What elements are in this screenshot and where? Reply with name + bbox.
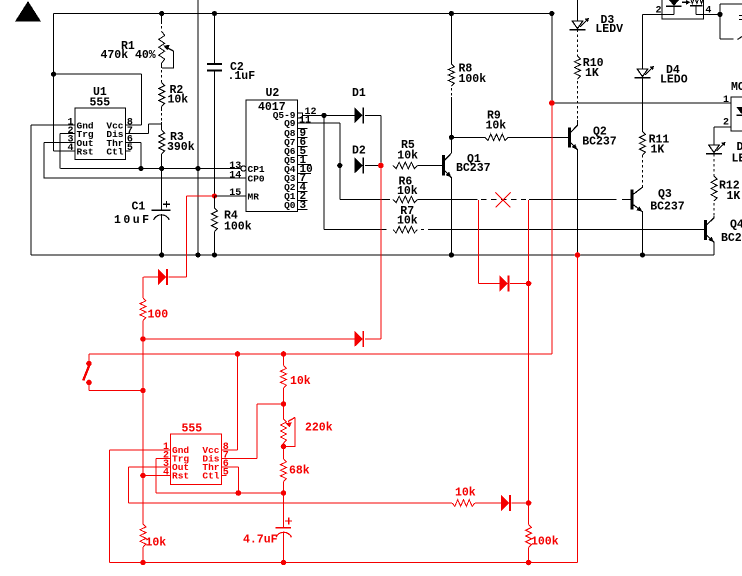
svg-text:10k: 10k xyxy=(168,94,189,107)
pin U3.4 wire xyxy=(696,6,720,15)
label R4 xyxy=(224,210,238,223)
svg-text:1K: 1K xyxy=(727,190,741,203)
label R10 value xyxy=(585,67,599,80)
cut mark X xyxy=(496,193,511,208)
svg-text:470k 40%: 470k 40% xyxy=(101,49,156,62)
svg-text:4: 4 xyxy=(67,143,73,154)
wire red bottom rail xyxy=(110,562,578,564)
svg-text:1K: 1K xyxy=(585,67,599,80)
diode D9 red xyxy=(499,275,508,291)
resistor R14 10k xyxy=(140,524,146,563)
resistor R18 10k xyxy=(452,500,475,507)
capacitor C3 4.7uF xyxy=(276,493,293,563)
wire R2-R3 lead xyxy=(161,107,163,131)
label U2 pin names left xyxy=(248,164,265,203)
wire red Q2-emitter riser xyxy=(577,255,579,563)
op-amp U1 body xyxy=(75,108,126,160)
node Vcc-354 xyxy=(235,351,241,357)
node Q3 emitter bottom xyxy=(640,252,645,257)
label U2 pin12 xyxy=(305,107,317,118)
node supply right top xyxy=(549,11,554,16)
resistor R7 10k row xyxy=(393,226,418,233)
wire R18 to D8 xyxy=(475,502,501,504)
label R4 value xyxy=(224,221,252,234)
label U2 output names xyxy=(273,110,296,211)
svg-text:Ctl: Ctl xyxy=(106,146,123,157)
label D5 type xyxy=(732,153,742,166)
node gnd U5 xyxy=(140,560,146,566)
svg-text:100k: 100k xyxy=(224,221,252,234)
wire Q2 emitter down xyxy=(576,150,578,255)
svg-text:10k: 10k xyxy=(290,375,311,388)
wire D2 out xyxy=(365,165,378,167)
wire top supply rail xyxy=(54,13,552,15)
resistor R17 68k xyxy=(281,446,287,493)
wire R5 to Q1 base xyxy=(418,165,443,167)
pin U1.8 Vcc stub xyxy=(125,124,141,126)
wire red supply drop xyxy=(89,103,552,354)
diode D7 red xyxy=(354,331,363,347)
node CP1 branch xyxy=(195,166,200,171)
svg-text:10k: 10k xyxy=(486,120,507,133)
label R11 xyxy=(649,134,670,147)
label R2 value xyxy=(168,94,189,107)
svg-text:Q0: Q0 xyxy=(284,200,296,211)
label U5 pin numbers left xyxy=(163,442,169,479)
svg-text:14: 14 xyxy=(229,170,241,181)
resistor R4 100k xyxy=(212,196,218,255)
label U5 pin numbers right xyxy=(223,442,229,479)
label R14 10k xyxy=(146,537,167,550)
label R9 xyxy=(487,110,501,123)
svg-text:10k: 10k xyxy=(455,487,476,500)
diode D8 red xyxy=(501,495,510,511)
label D3 xyxy=(601,14,615,27)
node C1 top xyxy=(159,166,164,171)
wire D1 to corner xyxy=(365,115,381,165)
wire red left drop xyxy=(142,339,144,524)
wire D7 corner up xyxy=(365,166,381,340)
wire D4 to R11 xyxy=(642,78,644,132)
svg-text:2: 2 xyxy=(655,6,661,17)
node D9-join xyxy=(526,281,532,287)
wire Q1 collector up xyxy=(450,137,452,153)
wire Q2 collector up xyxy=(576,120,578,125)
wire red row339 xyxy=(143,338,354,340)
label U1 pin names right xyxy=(106,121,123,158)
svg-text:MOC: MOC xyxy=(731,81,742,94)
resistor R11 1K xyxy=(640,132,646,187)
resistor R1 470k pot xyxy=(159,32,165,64)
pin U1.1 Gnd stub xyxy=(31,124,75,126)
node pin4 out xyxy=(717,12,722,17)
svg-text:BC237: BC237 xyxy=(721,232,742,245)
svg-text:100k: 100k xyxy=(531,536,559,549)
wire R9 to Q2 base xyxy=(508,136,568,138)
wire D3 top xyxy=(577,0,579,21)
svg-text:Q3: Q3 xyxy=(658,188,672,201)
wire U5 Dis up xyxy=(257,404,283,459)
label R7 xyxy=(400,205,414,218)
node D8-100k xyxy=(526,500,532,506)
svg-text:3: 3 xyxy=(300,200,307,212)
node Q1 emitter bottom xyxy=(449,252,454,257)
svg-text:1: 1 xyxy=(723,95,729,106)
resistor R5 10k row xyxy=(393,162,418,169)
label D1 xyxy=(352,87,366,100)
svg-text:LED: LED xyxy=(732,153,742,166)
wire cut to Q3 base xyxy=(529,199,631,201)
svg-text:CP0: CP0 xyxy=(248,174,265,185)
transistor Q1 BC237 xyxy=(444,153,452,177)
label R6 value xyxy=(397,185,418,198)
box right top component xyxy=(720,4,742,40)
wire MR red lead xyxy=(186,196,214,277)
label U4 MOC xyxy=(731,81,742,94)
label U2 xyxy=(266,87,280,100)
label D5 xyxy=(737,141,742,154)
label C3 4.7uF xyxy=(243,534,278,547)
wire CP1 pin13 xyxy=(198,168,241,170)
svg-text:D2: D2 xyxy=(352,145,366,158)
opto U3 arrow xyxy=(682,0,691,5)
label R1 value xyxy=(101,49,156,62)
resistor R15 10k xyxy=(281,354,287,404)
pin U4.2 wire xyxy=(714,127,731,145)
wire Q3 collector up xyxy=(642,186,644,189)
pin U1.7 Dis stub xyxy=(125,133,148,135)
label R5 xyxy=(401,139,415,152)
wire pin12 branch down xyxy=(323,115,325,229)
resistor R2 10k xyxy=(159,83,165,107)
wire D4 feed xyxy=(642,14,644,70)
opto U4 MOC body xyxy=(731,97,742,131)
wire R1 top lead xyxy=(161,14,163,32)
svg-text:5: 5 xyxy=(223,468,229,479)
svg-text:100: 100 xyxy=(148,309,169,322)
label Q4 type xyxy=(721,232,742,245)
transistor Q2 BC237 xyxy=(570,125,578,149)
pin U2 CP1 bubble xyxy=(241,166,246,171)
label C2 xyxy=(230,61,244,74)
label R1 xyxy=(121,40,135,53)
label R6 xyxy=(399,176,413,189)
transistor Q4 BC237 xyxy=(706,218,715,242)
node R1 top xyxy=(159,11,164,16)
wire Q4 emitter down xyxy=(713,242,715,255)
wire U5 Out corner xyxy=(128,467,452,503)
pin U5.8 Vcc stub xyxy=(221,449,237,451)
label D3 type xyxy=(595,23,623,36)
wire U2 Q9 pin11 xyxy=(297,123,339,166)
svg-text:.1uF: .1uF xyxy=(228,70,256,83)
pin U1.4 Rst stub xyxy=(54,150,75,152)
label R18 10k xyxy=(455,487,476,500)
label R3 value xyxy=(167,141,195,154)
label D4 xyxy=(666,64,680,77)
label U3 pin4 xyxy=(705,6,711,17)
diode D2 xyxy=(354,157,363,173)
svg-text:10k: 10k xyxy=(397,215,418,228)
switch S1 xyxy=(83,354,143,391)
svg-text:BC237: BC237 xyxy=(456,162,491,175)
svg-text:BC237: BC237 xyxy=(582,136,617,149)
node 68k bottom xyxy=(281,490,287,496)
svg-text:4: 4 xyxy=(705,6,711,17)
label R19 100k xyxy=(531,536,559,549)
diode D5 LED xyxy=(706,142,726,154)
transistor Q3 BC237 xyxy=(632,187,643,211)
svg-text:4: 4 xyxy=(163,468,169,479)
node bottom rail C2-branch xyxy=(195,252,200,257)
pot R16 wiper arrow xyxy=(284,418,296,447)
wire supply right drop black xyxy=(551,14,553,104)
pin U1.5 Ctl stub xyxy=(125,150,130,152)
wire Q1 emitter down xyxy=(450,178,452,255)
node C2 top xyxy=(212,11,217,16)
label C1 xyxy=(132,201,146,214)
node gnd Q2 red tap xyxy=(575,252,581,258)
wire Vcc branch horizontal xyxy=(54,73,142,75)
svg-text:4.7uF: 4.7uF xyxy=(243,534,278,547)
label R8 xyxy=(459,63,473,76)
wire R7 feed xyxy=(324,229,387,231)
wire R6 to cut xyxy=(418,199,478,201)
svg-text:1K: 1K xyxy=(651,143,665,156)
node Thr join xyxy=(138,166,143,171)
opto U3 photocell xyxy=(690,0,703,6)
label R5 value xyxy=(397,150,418,163)
wire U5 Gnd down xyxy=(109,450,111,563)
svg-text:Q4: Q4 xyxy=(730,219,742,232)
label U1 555 xyxy=(90,97,111,110)
resistor R6 10k row xyxy=(393,196,418,203)
node R8 top xyxy=(449,11,454,16)
wire Vcc branch vertical xyxy=(141,74,143,125)
wire Q9 to R6 xyxy=(340,166,390,200)
diode D6 red xyxy=(143,269,186,285)
node U1 Vcc branch xyxy=(51,72,56,77)
resistor R13 100 xyxy=(140,277,146,339)
resistor R8 100k xyxy=(448,14,454,138)
wire MR pin15 black part xyxy=(215,195,247,197)
wire R1-R2 lead xyxy=(161,63,163,83)
label Q3 type xyxy=(650,201,685,214)
label R16 220k xyxy=(305,422,333,435)
svg-text:BC237: BC237 xyxy=(650,201,685,214)
node Rst red xyxy=(140,473,146,479)
pin U5.1 Gnd stub xyxy=(110,449,171,451)
pin U1.3 Out stub xyxy=(44,141,75,143)
node gnd R19 xyxy=(526,560,532,566)
label U1 xyxy=(93,86,107,99)
svg-text:100k: 100k xyxy=(459,73,487,86)
wire cut bypass right xyxy=(528,200,530,503)
label C1 value xyxy=(114,214,149,227)
label U5 pin names right xyxy=(202,445,219,482)
svg-text:10k: 10k xyxy=(397,150,418,163)
svg-text:5: 5 xyxy=(127,143,133,154)
label D4 type xyxy=(660,74,688,87)
node MR junction red xyxy=(212,193,217,198)
pin U2 unconnected flags xyxy=(297,128,312,212)
pin U1.6 Thr stub xyxy=(125,141,141,143)
node R16 bottom xyxy=(281,444,287,450)
pin U5.7 Dis stub xyxy=(221,458,257,460)
node pin12 branch xyxy=(321,113,326,118)
label U4 pin1 xyxy=(723,95,729,106)
op-amp U2 4017 body xyxy=(246,100,297,212)
pin U5.4 Rst stub xyxy=(143,475,170,477)
label Q1 type xyxy=(456,162,491,175)
wire CP0 pin14 xyxy=(44,177,246,179)
svg-text:555: 555 xyxy=(182,423,203,436)
label R12 value xyxy=(727,190,741,203)
wire Trg rail to 68k xyxy=(238,492,283,494)
label R17 68k xyxy=(289,465,310,478)
svg-text:10k: 10k xyxy=(397,185,418,198)
wire Thr/Trg/CP1 rail xyxy=(60,168,241,170)
wire U1 Thr corner xyxy=(140,142,142,168)
label U2 pin numbers left xyxy=(229,161,241,199)
svg-text:U2: U2 xyxy=(266,87,280,100)
node red 339 xyxy=(140,336,146,342)
svg-text:10k: 10k xyxy=(146,537,167,550)
label U5 555 xyxy=(182,423,203,436)
node R15 top xyxy=(281,351,287,357)
label C2 value xyxy=(228,70,256,83)
wire full-height vertical xyxy=(197,0,199,255)
pin U5.6 Thr stub xyxy=(221,466,238,468)
svg-text:Rst: Rst xyxy=(172,471,189,482)
opto U3 body xyxy=(662,0,704,19)
wire U1 Dis corner xyxy=(148,124,161,134)
label R8 value xyxy=(459,73,487,86)
resistor R19 100k xyxy=(526,503,532,563)
svg-text:68k: 68k xyxy=(289,465,310,478)
svg-text:10uF: 10uF xyxy=(114,214,149,227)
diode D1 xyxy=(354,107,363,123)
svg-text:MR: MR xyxy=(248,192,260,203)
node R8-R9 junction xyxy=(449,135,454,140)
node Thr-Trg join xyxy=(236,490,242,496)
wire U1 Trg corner xyxy=(59,134,61,169)
node gnd C1 xyxy=(159,252,164,257)
wire U1 Out corner xyxy=(43,142,45,178)
capacitor C2 .1uF xyxy=(207,14,222,197)
label U1 pin numbers right xyxy=(127,117,133,154)
svg-text:15: 15 xyxy=(229,188,241,199)
wire U2 Q5-9 pin12 xyxy=(302,114,354,116)
node R15 bottom xyxy=(281,401,287,407)
label R10 xyxy=(583,57,604,70)
wire U5 Thr down xyxy=(237,467,239,493)
svg-text:390k: 390k xyxy=(167,141,195,154)
wire left rail vertical xyxy=(53,14,55,151)
wire R9 feed xyxy=(451,136,485,138)
label R3 xyxy=(170,131,184,144)
label U4 pin2 xyxy=(723,118,729,129)
label Q1 xyxy=(467,153,481,166)
svg-text:220k: 220k xyxy=(305,422,333,435)
node supply red tap xyxy=(549,100,555,106)
wire R3 bottom lead xyxy=(161,154,163,169)
wire cut dashed xyxy=(481,199,526,201)
diode D3 LEDV xyxy=(570,18,590,30)
capacitor C1 10uF xyxy=(151,169,170,256)
pin U5.5 Ctl stub xyxy=(221,475,226,477)
label Q3 xyxy=(658,188,672,201)
svg-text:C1: C1 xyxy=(132,201,146,214)
wire cut bypass left xyxy=(479,200,500,284)
node D2 anode xyxy=(337,163,342,168)
opto U4 LED xyxy=(737,107,742,115)
wire Q3 emitter down xyxy=(642,212,644,255)
svg-text:D1: D1 xyxy=(352,87,366,100)
label R7 value xyxy=(397,215,418,228)
label R12 xyxy=(719,180,740,193)
pin U5.3 Out stub xyxy=(128,466,170,468)
resistor R10 1K xyxy=(575,30,581,121)
pin U1.2 Trg stub xyxy=(60,133,75,135)
label U2 4017 xyxy=(258,101,286,114)
label R11 value xyxy=(651,143,665,156)
pin U2.12 square xyxy=(297,113,302,118)
label R13 100 xyxy=(148,309,169,322)
wire D8 out xyxy=(512,502,529,504)
wire U1 Gnd down-left xyxy=(30,125,32,255)
wire R7 to Q4 base xyxy=(421,229,706,231)
label Q2 type xyxy=(582,136,617,149)
resistor R3 390k xyxy=(159,130,165,154)
pin U3.2 wire xyxy=(643,6,675,14)
resistor R12 1K xyxy=(711,154,717,216)
svg-text:11: 11 xyxy=(299,115,311,126)
diode D4 LEDO xyxy=(635,66,655,78)
label U5 pin names left xyxy=(172,445,189,482)
resistor R16 220k pot xyxy=(281,404,287,446)
label Q4 xyxy=(730,219,742,232)
pot R1 wiper arrow xyxy=(162,45,173,68)
label U2 pin11 xyxy=(299,115,311,126)
svg-text:Rst: Rst xyxy=(77,146,94,157)
label Q2 xyxy=(593,125,607,138)
logo triangle xyxy=(15,1,41,22)
wire MOC drive rail xyxy=(552,102,731,104)
node D2-D7 red join xyxy=(378,163,384,169)
label R15 10k xyxy=(290,375,311,388)
node gnd C3 xyxy=(281,560,287,566)
svg-text:555: 555 xyxy=(90,97,111,110)
node switch out xyxy=(140,388,146,394)
wire bottom ground rail xyxy=(31,254,714,256)
wire U5 Trg corner xyxy=(156,459,238,494)
node gnd R4 xyxy=(212,252,217,257)
wire Q4 collector up xyxy=(713,216,715,218)
svg-text:LEDO: LEDO xyxy=(660,74,688,87)
pin U5.2 Trg stub xyxy=(156,458,170,460)
wire D9 out xyxy=(510,283,529,285)
label U3 pin2 xyxy=(655,6,661,17)
op-amp U5 555 body xyxy=(170,434,221,485)
label R2 xyxy=(170,84,184,97)
wire U5 Vcc up xyxy=(237,354,239,450)
opto U3 LED xyxy=(666,0,682,6)
resistor R9 10k row xyxy=(485,134,508,141)
label U1 pin names left xyxy=(77,121,94,158)
label U1 pin numbers left xyxy=(67,117,73,154)
label D2 xyxy=(352,145,366,158)
